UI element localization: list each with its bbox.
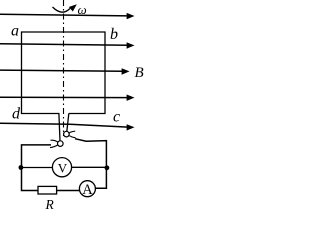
svg-text:B: B: [135, 65, 144, 81]
svg-text:V: V: [58, 161, 68, 176]
svg-text:A: A: [82, 182, 93, 198]
svg-text:c: c: [113, 109, 120, 126]
svg-text:a: a: [11, 23, 19, 40]
svg-text:ω: ω: [78, 2, 87, 17]
svg-text:b: b: [110, 26, 118, 43]
svg-text:R: R: [45, 197, 55, 212]
svg-text:d: d: [12, 106, 21, 123]
